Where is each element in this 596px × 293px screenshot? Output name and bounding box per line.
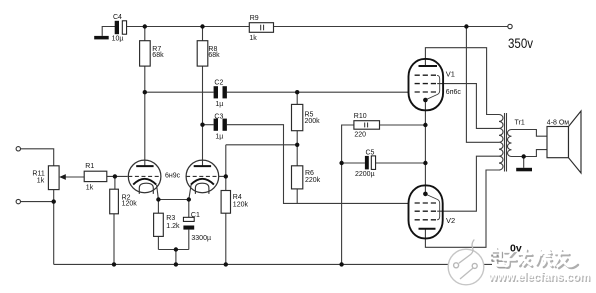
svg-text:6н9с: 6н9с bbox=[165, 172, 181, 179]
svg-text:C1: C1 bbox=[191, 212, 200, 219]
svg-text:350v: 350v bbox=[508, 35, 533, 51]
svg-text:R10: R10 bbox=[354, 113, 367, 120]
svg-text:R1: R1 bbox=[85, 163, 94, 170]
svg-text:C3: C3 bbox=[214, 114, 223, 121]
svg-text:C5: C5 bbox=[366, 150, 375, 157]
svg-text:R3: R3 bbox=[166, 215, 175, 222]
svg-text:120k: 120k bbox=[122, 201, 138, 208]
svg-text:Tr1: Tr1 bbox=[515, 119, 525, 126]
svg-text:120k: 120k bbox=[233, 202, 249, 209]
svg-text:V2: V2 bbox=[446, 216, 455, 225]
svg-text:2200µ: 2200µ bbox=[355, 171, 375, 178]
svg-text:220k: 220k bbox=[305, 177, 321, 184]
svg-text:C2: C2 bbox=[214, 79, 223, 86]
svg-text:www.elecfans.com: www.elecfans.com bbox=[488, 272, 590, 284]
svg-text:6п6с: 6п6с bbox=[446, 89, 462, 96]
svg-text:1k: 1k bbox=[249, 35, 257, 42]
svg-text:4-8 Ом: 4-8 Ом bbox=[547, 119, 570, 126]
svg-text:3300µ: 3300µ bbox=[191, 235, 211, 242]
svg-text:220: 220 bbox=[354, 131, 366, 138]
svg-text:R4: R4 bbox=[233, 194, 242, 201]
svg-text:68k: 68k bbox=[208, 52, 220, 59]
svg-text:V1: V1 bbox=[446, 69, 455, 78]
svg-text:R11: R11 bbox=[32, 171, 44, 178]
svg-text:1µ: 1µ bbox=[215, 133, 223, 140]
svg-text:10µ: 10µ bbox=[112, 36, 124, 43]
svg-text:R6: R6 bbox=[305, 170, 314, 177]
svg-text:68k: 68k bbox=[152, 52, 164, 59]
svg-text:1k: 1k bbox=[37, 178, 45, 185]
svg-text:C4: C4 bbox=[113, 14, 122, 21]
svg-text:1.2k: 1.2k bbox=[166, 223, 180, 230]
svg-text:200k: 200k bbox=[305, 118, 321, 125]
svg-text:0v: 0v bbox=[510, 242, 522, 254]
svg-text:R9: R9 bbox=[250, 15, 259, 22]
svg-text:1k: 1k bbox=[86, 185, 94, 192]
svg-text:1µ: 1µ bbox=[215, 101, 223, 108]
